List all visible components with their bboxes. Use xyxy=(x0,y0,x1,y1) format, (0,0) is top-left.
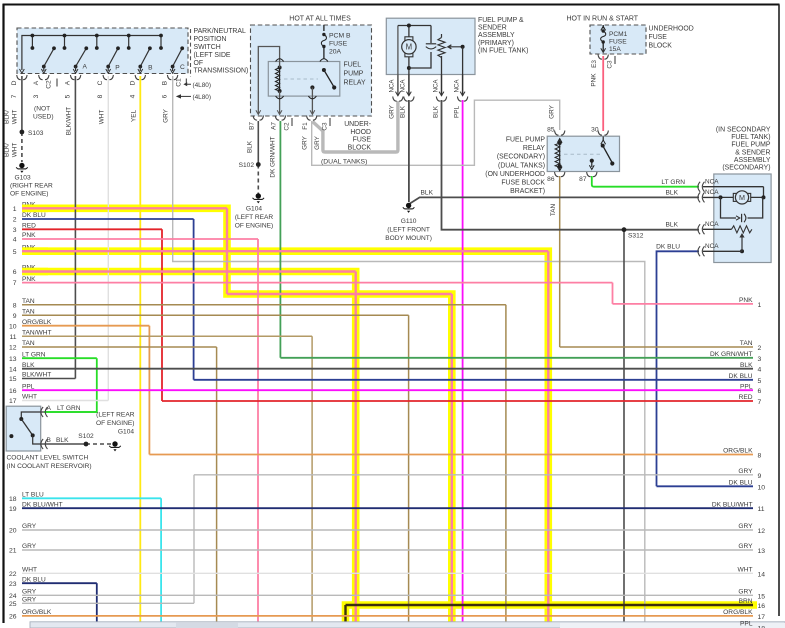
connector bracket secondary pump y=251.3 xyxy=(698,246,705,256)
svg-text:DK BLU: DK BLU xyxy=(656,243,680,250)
(4L80) annotation 2 xyxy=(178,95,192,97)
svg-text:21: 21 xyxy=(9,548,17,555)
svg-text:14: 14 xyxy=(758,571,766,578)
svg-text:22: 22 xyxy=(9,571,17,578)
PNPS switch contact 75.6 xyxy=(76,48,87,66)
connector bracket x=258.3 xyxy=(253,116,263,121)
wire RED right row 7 xyxy=(162,400,753,402)
primary pump wiper arrow xyxy=(448,45,463,49)
svg-text:GRY: GRY xyxy=(738,589,753,596)
wire ORG/BLK to right row 8 xyxy=(149,454,753,456)
svg-text:PNK: PNK xyxy=(591,73,598,87)
ground G104 coolant xyxy=(109,441,121,451)
wire BLK/WHT from PNPS pin D to S103 xyxy=(21,76,23,132)
relay dashed link xyxy=(284,78,318,80)
svg-text:BLK: BLK xyxy=(22,362,35,369)
svg-text:15: 15 xyxy=(9,376,17,383)
svg-text:FUEL PUMP: FUEL PUMP xyxy=(731,142,771,149)
svg-text:DK BLU: DK BLU xyxy=(729,373,753,380)
wire TAN row 9 xyxy=(22,314,409,316)
wire BRN highlighted vertical xyxy=(344,605,346,628)
connector bracket PNPS x=75.6 xyxy=(70,75,80,80)
svg-text:(IN FUEL TANK): (IN FUEL TANK) xyxy=(478,47,528,54)
svg-text:WHT: WHT xyxy=(22,567,37,574)
svg-text:ORG/BLK: ORG/BLK xyxy=(723,609,753,616)
svg-text:(SECONDARY): (SECONDARY) xyxy=(497,154,545,161)
wire DK BLU right row 10 xyxy=(657,485,754,487)
relay2 dashed link xyxy=(564,153,600,155)
wire DK BLU row23 vertical xyxy=(96,583,98,628)
svg-text:GRY: GRY xyxy=(22,523,37,530)
connector bracket pump x=441.5 xyxy=(436,97,446,102)
wire PNK highlighted vertical (row5 path) xyxy=(547,251,549,628)
primary pump pin wires to connectors xyxy=(397,75,399,96)
wire GRY row25 vertical xyxy=(193,475,195,604)
connector bracket x=280.4 xyxy=(275,116,285,121)
highlight band: PNK circuit row 6 xyxy=(22,272,356,628)
relay box edge arcs xyxy=(276,59,284,62)
highlight band: BRN circuit bottom xyxy=(346,605,758,628)
hot at all times fuse block box xyxy=(251,25,372,116)
wire TAN/WHT row11 vertical xyxy=(311,336,313,628)
connector bracket PNPS x=172.6 xyxy=(167,75,177,80)
wire TAN row8 vertical xyxy=(505,305,507,628)
svg-text:WHT: WHT xyxy=(12,143,19,158)
svg-text:C2: C2 xyxy=(46,80,53,89)
svg-text:BLK/: BLK/ xyxy=(4,110,11,124)
ground G110 xyxy=(403,203,415,213)
svg-text:DK BLU: DK BLU xyxy=(729,480,753,487)
svg-text:YEL: YEL xyxy=(130,110,137,123)
fuel pump relay box (primary) xyxy=(268,62,340,97)
svg-text:WHT: WHT xyxy=(98,110,105,125)
wire LT GRN coolant switch pin A xyxy=(44,411,97,413)
svg-text:TAN: TAN xyxy=(550,203,557,216)
svg-text:M: M xyxy=(739,193,745,202)
wire PNK fuse PCM1 to relay pin 30 xyxy=(602,56,604,131)
connector bracket PNPS x=108.2 xyxy=(103,75,113,80)
relay switch primary xyxy=(322,68,326,72)
svg-text:GRY: GRY xyxy=(302,135,309,149)
svg-text:NCA: NCA xyxy=(389,79,396,93)
connector bracket PNPS x=43.8 xyxy=(39,75,49,80)
connector bracket PNPS x=21.9 xyxy=(17,75,27,80)
svg-text:GRY: GRY xyxy=(163,108,170,122)
relay2 coil xyxy=(555,143,560,167)
wire TAN/WHT row 11 xyxy=(22,335,312,337)
svg-text:HOT AT ALL TIMES: HOT AT ALL TIMES xyxy=(289,16,351,23)
wire DK GRN/WHT from connector A7 xyxy=(279,121,281,358)
svg-text:25: 25 xyxy=(9,601,17,608)
svg-text:20: 20 xyxy=(9,528,17,535)
svg-text:B: B xyxy=(162,80,169,85)
svg-text:NCA: NCA xyxy=(705,189,719,196)
svg-text:FUSE BLOCK: FUSE BLOCK xyxy=(501,180,545,187)
svg-text:7: 7 xyxy=(13,280,17,287)
svg-text:85: 85 xyxy=(547,127,555,134)
wire PNK row4 vertical xyxy=(257,239,259,628)
svg-text:GRY: GRY xyxy=(22,597,37,604)
svg-text:12: 12 xyxy=(9,345,17,352)
svg-text:G110: G110 xyxy=(401,218,417,225)
wire ORG/BLK row 10 xyxy=(22,325,149,327)
svg-text:3: 3 xyxy=(33,94,40,98)
svg-text:BLK/WHT: BLK/WHT xyxy=(22,372,51,379)
svg-text:G104: G104 xyxy=(118,429,134,436)
PNPS bus contact at 64.5 xyxy=(64,36,66,49)
svg-text:(LEFT REAR: (LEFT REAR xyxy=(96,412,135,419)
svg-text:8: 8 xyxy=(13,302,17,309)
svg-text:4: 4 xyxy=(129,94,136,98)
svg-text:1: 1 xyxy=(758,302,762,309)
svg-text:NCA: NCA xyxy=(705,178,719,185)
wire BLK from B7 to S102 xyxy=(257,121,259,165)
svg-text:10: 10 xyxy=(9,323,17,330)
wire GRY row 25 xyxy=(22,602,194,604)
wire PNK highlighted vertical (row6 path) xyxy=(355,272,357,628)
relay coil wire down xyxy=(279,91,281,114)
svg-text:FUSE: FUSE xyxy=(329,41,348,48)
connector bracket PNPS x=140.3 xyxy=(135,75,145,80)
svg-text:C2: C2 xyxy=(284,122,291,131)
coolant level switch box xyxy=(6,406,41,451)
svg-text:SENDER: SENDER xyxy=(478,25,507,32)
svg-text:9: 9 xyxy=(13,313,17,320)
relay2 switch xyxy=(602,137,604,142)
wire RED row 3 xyxy=(22,228,162,230)
svg-text:TAN: TAN xyxy=(22,308,35,315)
svg-text:12: 12 xyxy=(758,528,766,535)
connector bracket E3 xyxy=(598,55,608,60)
svg-text:ORG/BLK: ORG/BLK xyxy=(723,448,753,455)
svg-text:20A: 20A xyxy=(329,49,342,56)
svg-text:DK GRN/WHT: DK GRN/WHT xyxy=(710,351,753,358)
svg-text:C3: C3 xyxy=(607,60,614,69)
svg-text:5: 5 xyxy=(758,378,762,385)
svg-text:3: 3 xyxy=(13,227,17,234)
svg-text:LT GRN: LT GRN xyxy=(661,179,685,186)
svg-text:P: P xyxy=(115,65,120,72)
svg-text:11: 11 xyxy=(758,506,765,513)
svg-text:11: 11 xyxy=(9,334,16,341)
PNPS bus contact at 161 xyxy=(160,36,162,49)
svg-text:COOLANT LEVEL SWITCH: COOLANT LEVEL SWITCH xyxy=(7,454,89,461)
splice S102 coolant xyxy=(84,442,89,447)
connector bracket x=311.7 xyxy=(307,116,317,121)
svg-text:G103: G103 xyxy=(15,175,31,182)
wire BLK dashed S102 to G104 (coolant) xyxy=(86,443,112,445)
connector bracket relay2 pin30 xyxy=(598,131,608,136)
splice S312 xyxy=(622,227,627,232)
svg-text:BLK: BLK xyxy=(666,190,679,197)
svg-text:17: 17 xyxy=(9,398,17,405)
connector bracket relay2 pin87 xyxy=(587,172,597,177)
svg-text:(IN SECONDARY: (IN SECONDARY xyxy=(716,127,771,134)
svg-text:TAN/WHT: TAN/WHT xyxy=(22,330,52,337)
svg-text:DK GRN/WHT: DK GRN/WHT xyxy=(270,136,277,177)
svg-text:PCM1: PCM1 xyxy=(609,31,628,38)
svg-text:15: 15 xyxy=(758,593,766,600)
svg-text:FUEL PUMP &: FUEL PUMP & xyxy=(478,17,524,24)
wire BLK coolant switch pin B to S102 xyxy=(44,443,86,445)
wire BLK primary pump motor to G110 xyxy=(408,100,410,202)
svg-text:GRY: GRY xyxy=(314,135,321,149)
svg-text:ORG/BLK: ORG/BLK xyxy=(22,319,52,326)
connector bracket pump x=397.9 xyxy=(393,97,403,102)
svg-text:D: D xyxy=(129,80,136,85)
svg-text:NCA: NCA xyxy=(400,79,407,93)
svg-text:B: B xyxy=(148,65,153,72)
svg-text:7: 7 xyxy=(758,399,762,406)
svg-text:BRN: BRN xyxy=(739,598,753,605)
hot in run & start fuse block box xyxy=(590,25,646,54)
highlight band overlap on labels rows 1,5,6 xyxy=(22,205,48,213)
primary pump motor xyxy=(397,26,399,75)
wire BRN row 16 right highlighted xyxy=(346,604,754,606)
connector bracket secondary pump y=197.4 xyxy=(698,192,705,202)
svg-text:(4L80): (4L80) xyxy=(193,82,211,89)
PNPS bus contact at 96.8 xyxy=(96,36,98,49)
svg-text:BLK/WHT: BLK/WHT xyxy=(66,107,73,136)
secondary pump capacitor loop xyxy=(721,197,763,218)
svg-text:G104: G104 xyxy=(246,206,262,213)
wire GRY row 21 xyxy=(22,549,753,551)
svg-text:87: 87 xyxy=(579,176,587,183)
svg-text:HOT IN RUN & START: HOT IN RUN & START xyxy=(567,16,639,23)
svg-text:PCM B: PCM B xyxy=(329,33,351,40)
svg-text:18: 18 xyxy=(9,496,17,503)
svg-text:PPL: PPL xyxy=(453,106,460,119)
svg-text:FUSE: FUSE xyxy=(353,137,372,144)
wire WHT from PNPS pin 8 xyxy=(107,76,109,401)
svg-text:S102: S102 xyxy=(239,162,255,169)
svg-text:RED: RED xyxy=(739,394,753,401)
secondary pump motor xyxy=(721,196,764,198)
svg-text:GRY: GRY xyxy=(738,543,753,550)
svg-text:TAN: TAN xyxy=(22,340,35,347)
svg-text:24: 24 xyxy=(9,593,17,600)
wire PNK row 4 xyxy=(22,238,258,240)
svg-text:C3: C3 xyxy=(322,122,329,131)
svg-text:B: B xyxy=(47,437,52,444)
wire RED row3 vertical xyxy=(161,229,163,401)
wire TAN relay86 to right row 2 xyxy=(560,346,753,348)
svg-text:BRACKET): BRACKET) xyxy=(510,188,545,195)
wire WHT row 22 xyxy=(22,572,753,574)
secondary pump sender resistor xyxy=(732,226,752,233)
svg-text:1: 1 xyxy=(13,206,17,213)
svg-text:(DUAL TANKS): (DUAL TANKS) xyxy=(321,159,367,166)
svg-text:PUMP: PUMP xyxy=(344,71,364,78)
svg-text:30: 30 xyxy=(591,127,599,134)
svg-text:6: 6 xyxy=(162,94,169,98)
wire YEL from PNPS pin 4 xyxy=(139,76,141,628)
svg-text:BLOCK: BLOCK xyxy=(649,43,673,50)
wire GRY row 20 xyxy=(22,529,753,531)
svg-text:TRANSMISSION): TRANSMISSION) xyxy=(194,68,249,75)
svg-text:19: 19 xyxy=(9,506,17,513)
wire DK BLU from secondary pump pin4 xyxy=(657,251,700,486)
wire LT GRN row13 vertical to coolant switch xyxy=(44,358,97,412)
svg-text:10: 10 xyxy=(758,484,766,491)
svg-text:S102: S102 xyxy=(78,433,94,440)
wire PNK row 7 to right row 1 xyxy=(22,283,753,304)
svg-text:GRY: GRY xyxy=(738,523,753,530)
svg-text:LT GRN: LT GRN xyxy=(22,351,46,358)
svg-text:2: 2 xyxy=(13,217,17,224)
svg-text:5: 5 xyxy=(13,249,17,256)
svg-text:(DUAL TANKS): (DUAL TANKS) xyxy=(498,162,545,169)
svg-text:NCA: NCA xyxy=(432,79,439,93)
svg-text:S103: S103 xyxy=(28,130,44,137)
svg-text:FUSE: FUSE xyxy=(609,39,627,46)
svg-text:GRY: GRY xyxy=(389,104,396,118)
svg-text:GRY: GRY xyxy=(22,543,37,550)
ground G103 xyxy=(16,163,28,173)
PNPS bus contact at 128.7 xyxy=(128,36,130,49)
svg-text:3: 3 xyxy=(758,356,762,363)
splice S102 xyxy=(256,162,261,167)
wire DK BLU row2 vertical xyxy=(193,219,195,380)
svg-text:23: 23 xyxy=(9,581,17,588)
svg-text:BODY MOUNT): BODY MOUNT) xyxy=(385,235,432,242)
svg-text:TAN: TAN xyxy=(22,298,35,305)
svg-text:RED: RED xyxy=(22,223,36,230)
svg-text:GRY: GRY xyxy=(738,468,753,475)
wire GRY row 24 xyxy=(22,594,753,596)
svg-text:DK BLU: DK BLU xyxy=(22,212,46,219)
svg-text:A: A xyxy=(65,80,72,85)
svg-text:A7: A7 xyxy=(271,122,278,130)
wire PPL from primary pump sender xyxy=(463,100,785,628)
wire GRY thin dual-tanks path F1 to relay pin 85 xyxy=(312,100,560,165)
svg-text:16: 16 xyxy=(9,388,17,395)
wire BLK from S312 down xyxy=(623,230,625,628)
svg-text:DK BLU/WHT: DK BLU/WHT xyxy=(22,501,63,508)
svg-text:PPL: PPL xyxy=(740,383,753,390)
svg-text:(RIGHT REAR: (RIGHT REAR xyxy=(10,183,53,190)
svg-text:16: 16 xyxy=(758,603,766,610)
svg-text:USED): USED) xyxy=(33,114,54,121)
svg-text:26: 26 xyxy=(9,614,17,621)
wire GRY to right row 9 xyxy=(194,474,753,476)
park/neutral position switch box xyxy=(17,28,188,74)
wire LT BLU row18 vertical xyxy=(160,498,162,628)
svg-text:SWITCH: SWITCH xyxy=(194,44,221,51)
highlight band: PNK circuit row 5 xyxy=(22,251,548,628)
svg-text:NCA: NCA xyxy=(453,79,460,93)
svg-text:(NOT: (NOT xyxy=(34,106,50,113)
svg-text:PNK: PNK xyxy=(22,276,36,283)
wire BLK G110 branch to secondary pump xyxy=(410,197,700,203)
wire GRY from PNPS pin 6 xyxy=(173,76,645,628)
wire TAN row9 vertical xyxy=(408,315,410,628)
fuse PCM B 20A xyxy=(323,25,325,31)
PNPS title xyxy=(190,29,192,77)
svg-text:(4L80): (4L80) xyxy=(193,94,211,101)
svg-text:(IN COOLANT RESERVOIR): (IN COOLANT RESERVOIR) xyxy=(7,463,92,470)
wire PNK row 5 highlighted xyxy=(22,250,548,252)
wire BLK primary pump sender branch xyxy=(442,100,700,230)
svg-text:S312: S312 xyxy=(628,233,644,240)
svg-text:7: 7 xyxy=(11,94,18,98)
wire TAN row12 vertical xyxy=(216,347,218,628)
svg-text:GRY: GRY xyxy=(549,104,556,118)
wire BLK/WHT from PNPS pin 5 xyxy=(74,76,76,379)
wire DK BLU row 23 xyxy=(22,582,97,584)
svg-text:(LEFT REAR: (LEFT REAR xyxy=(235,214,274,221)
fuel pump relay (secondary) box xyxy=(547,136,619,171)
svg-text:C: C xyxy=(97,80,104,85)
wire PNK highlighted vertical (row1 path) xyxy=(227,208,452,628)
svg-text:BLK: BLK xyxy=(421,189,434,196)
svg-text:WHT: WHT xyxy=(12,110,19,125)
svg-text:C1: C1 xyxy=(176,78,183,87)
svg-text:PNK: PNK xyxy=(739,297,753,304)
svg-text:4: 4 xyxy=(13,237,17,244)
connector bracket secondary pump y=186.7 xyxy=(698,182,705,192)
svg-text:86: 86 xyxy=(547,176,555,183)
svg-text:ASSEMBLY: ASSEMBLY xyxy=(478,32,515,39)
svg-text:(LEFT SIDE: (LEFT SIDE xyxy=(194,52,231,59)
svg-text:WHT: WHT xyxy=(737,567,752,574)
svg-text:BLK: BLK xyxy=(247,140,254,153)
svg-text:(ON UNDERHOOD: (ON UNDERHOOD xyxy=(485,171,545,178)
svg-text:RELAY: RELAY xyxy=(344,80,366,87)
svg-text:LT BLU: LT BLU xyxy=(22,492,44,499)
wire WHT row 17 xyxy=(22,400,108,402)
wire PNK row7 jog vertical xyxy=(612,283,614,304)
wire PPL row 16 xyxy=(22,389,753,391)
svg-text:(LEFT FRONT: (LEFT FRONT xyxy=(387,227,430,234)
svg-text:PARK/NEUTRAL: PARK/NEUTRAL xyxy=(194,28,246,35)
svg-text:BLK/: BLK/ xyxy=(4,143,11,157)
wire BLK row 14 xyxy=(22,368,753,370)
wire TAN row 8 xyxy=(22,304,506,306)
svg-text:& SENDER: & SENDER xyxy=(735,149,770,156)
wire BLK dashed S102 to G104 xyxy=(257,165,259,194)
svg-text:NCA: NCA xyxy=(705,221,719,228)
svg-text:TAN: TAN xyxy=(740,340,753,347)
svg-text:LT GRN: LT GRN xyxy=(57,405,81,412)
svg-text:DK BLU: DK BLU xyxy=(22,576,46,583)
PNPS switch contact 172.6 xyxy=(173,48,183,66)
wire BLK/WHT dashed S103 to G103 xyxy=(21,132,23,162)
svg-text:8: 8 xyxy=(758,453,762,460)
svg-text:(PRIMARY): (PRIMARY) xyxy=(478,40,514,47)
svg-text:2: 2 xyxy=(758,345,762,352)
svg-text:FUSE: FUSE xyxy=(649,34,668,41)
PNPS internal bus xyxy=(22,36,161,71)
PNPS switch contact 43.8 xyxy=(44,48,54,66)
svg-text:OF ENGINE): OF ENGINE) xyxy=(10,191,48,198)
svg-text:FUEL TANK): FUEL TANK) xyxy=(731,134,770,141)
PNPS switch contact 108.2 xyxy=(108,48,118,66)
svg-text:8: 8 xyxy=(97,94,104,98)
svg-text:14: 14 xyxy=(9,366,17,373)
svg-text:F1: F1 xyxy=(302,122,309,130)
svg-text:BLK: BLK xyxy=(666,221,679,228)
svg-text:POSITION: POSITION xyxy=(194,36,227,43)
connector bracket pump x=462.6 xyxy=(457,97,467,102)
svg-text:FUEL PUMP: FUEL PUMP xyxy=(506,137,546,144)
svg-text:A: A xyxy=(33,80,40,85)
(4L80) annotation 1 xyxy=(186,79,191,85)
svg-text:OF: OF xyxy=(194,60,204,67)
wire BLK/WHT row 15 xyxy=(22,378,75,380)
svg-text:A: A xyxy=(47,405,52,412)
svg-text:OF ENGINE): OF ENGINE) xyxy=(96,420,134,427)
